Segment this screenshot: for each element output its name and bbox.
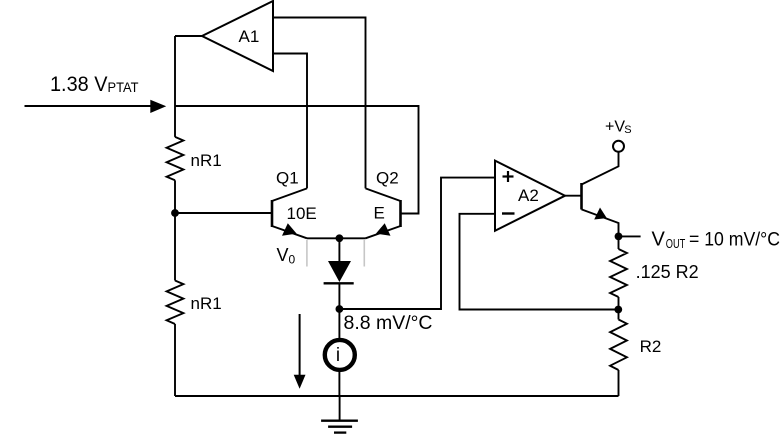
svg-text:Q1: Q1 [276, 169, 299, 188]
transistor Q1 [272, 169, 317, 239]
svg-text:1.38 V: 1.38 V [50, 73, 108, 96]
node: feedback junction dot [614, 306, 622, 314]
svg-text:10E: 10E [287, 204, 317, 223]
wire: A1 lower input to Q1 collector [273, 54, 307, 189]
wire: left rail [174, 36, 176, 137]
wire: input rail to Q2 base [175, 106, 419, 214]
svg-text:+V: +V [605, 119, 625, 136]
gray guide line left [306, 240, 308, 267]
svg-text:S: S [624, 124, 631, 136]
node: VOUT dot [615, 233, 623, 241]
node: 8.8mV junction dot [336, 305, 344, 313]
svg-text:A1: A1 [239, 27, 260, 46]
svg-text:= 10 mV/°C: = 10 mV/°C [689, 230, 780, 251]
wire: VOUT stub [619, 235, 641, 237]
current source i [325, 340, 355, 370]
svg-text:0: 0 [289, 253, 296, 267]
resistor .125 R2 [610, 236, 699, 309]
label 1.38 VPTAT [50, 73, 139, 96]
svg-text:8.8 mV/°C: 8.8 mV/°C [344, 313, 433, 334]
resistor nR1 (top) [167, 137, 222, 180]
svg-text:i: i [336, 345, 340, 366]
svg-text:R2: R2 [640, 337, 662, 356]
op-amp A2 [495, 161, 565, 231]
svg-text:PTAT: PTAT [108, 80, 139, 95]
wire: common emitter [307, 237, 366, 239]
gray guide line right [363, 240, 365, 267]
input arrowhead [150, 100, 166, 113]
svg-text:E: E [374, 204, 385, 223]
power terminal +VS [605, 119, 632, 152]
wire: Q1 base [175, 212, 272, 214]
current direction arrow [294, 314, 306, 389]
wire: current source to bottom rail [338, 372, 340, 396]
ground [321, 396, 358, 433]
wire: diode to junction [338, 283, 340, 309]
svg-text:Q2: Q2 [376, 169, 399, 188]
svg-text:V: V [652, 229, 666, 251]
resistor R2 [610, 310, 661, 397]
wire: junction to A2 + input [339, 178, 495, 309]
node: junction dot left rail / Q1 base [171, 209, 179, 217]
svg-text:nR1: nR1 [191, 294, 222, 313]
wire: A1 upper input to Q2 collector [273, 18, 366, 189]
wire: emitter node to diode [338, 238, 340, 261]
wire: A2 output to Q3 base [565, 195, 582, 197]
wire: A1 output to left rail [175, 35, 202, 37]
svg-text:A2: A2 [518, 186, 539, 205]
op-amp A1 [202, 1, 273, 71]
svg-text:V: V [277, 245, 289, 265]
transistor Q3 [582, 152, 619, 236]
svg-text:OUT: OUT [666, 236, 686, 251]
diode D1 [324, 261, 354, 283]
wire: bottom rail [175, 395, 619, 397]
resistor nR1 (bottom) [167, 281, 222, 325]
node: emitter junction dot [336, 234, 344, 242]
wire: input line [25, 105, 153, 107]
label VOUT = 10 mV/°C [652, 229, 781, 252]
wire: junction to current source [338, 309, 340, 338]
svg-text:.125 R2: .125 R2 [636, 262, 699, 282]
wire: A2 - input to feedback [460, 214, 619, 310]
transistor Q2 [366, 169, 401, 239]
label V0 [277, 245, 296, 267]
svg-text:nR1: nR1 [191, 151, 222, 170]
